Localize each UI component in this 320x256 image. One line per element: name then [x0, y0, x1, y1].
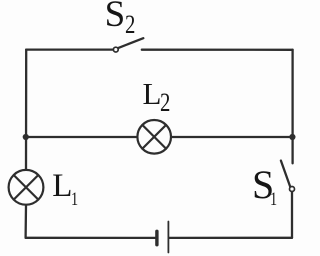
switch S2 pivot circle [113, 47, 118, 52]
label L1 subscript 1 [71, 190, 78, 209]
battery cell long plate (+) [167, 222, 169, 253]
lamp L2 circle [137, 120, 171, 154]
switch S1 arm [281, 161, 290, 187]
wire right lower [291, 192, 293, 238]
label S1 subscript 1 [270, 190, 277, 209]
switch S2 arm [118, 38, 143, 48]
lamp L1 cross [14, 175, 38, 199]
wire top-right segment [142, 49, 293, 51]
label S2 subscript 2 [125, 12, 135, 38]
label L1 [52, 170, 72, 203]
label S1 [252, 165, 274, 205]
label S2 [105, 0, 126, 33]
wire middle left segment [26, 136, 137, 138]
label L2 [143, 78, 162, 109]
wire bottom-right segment [169, 237, 292, 239]
battery cell short thick plate (-) [155, 231, 158, 244]
switch S1 pivot circle [290, 187, 295, 192]
wire left upper (top corner to lamp L1) [25, 50, 28, 170]
lamp L1 circle [9, 170, 44, 205]
label L2 subscript 2 [160, 90, 170, 116]
wire bottom-left segment [26, 237, 156, 239]
wire right upper [291, 50, 293, 164]
wire left lower (lamp L1 bottom lead) [24, 206, 27, 238]
wire top-left segment [26, 48, 112, 50]
wire middle right segment [172, 136, 293, 138]
node junction right dot [289, 134, 295, 140]
node junction left dot [23, 134, 29, 140]
lamp L2 cross [142, 125, 166, 149]
